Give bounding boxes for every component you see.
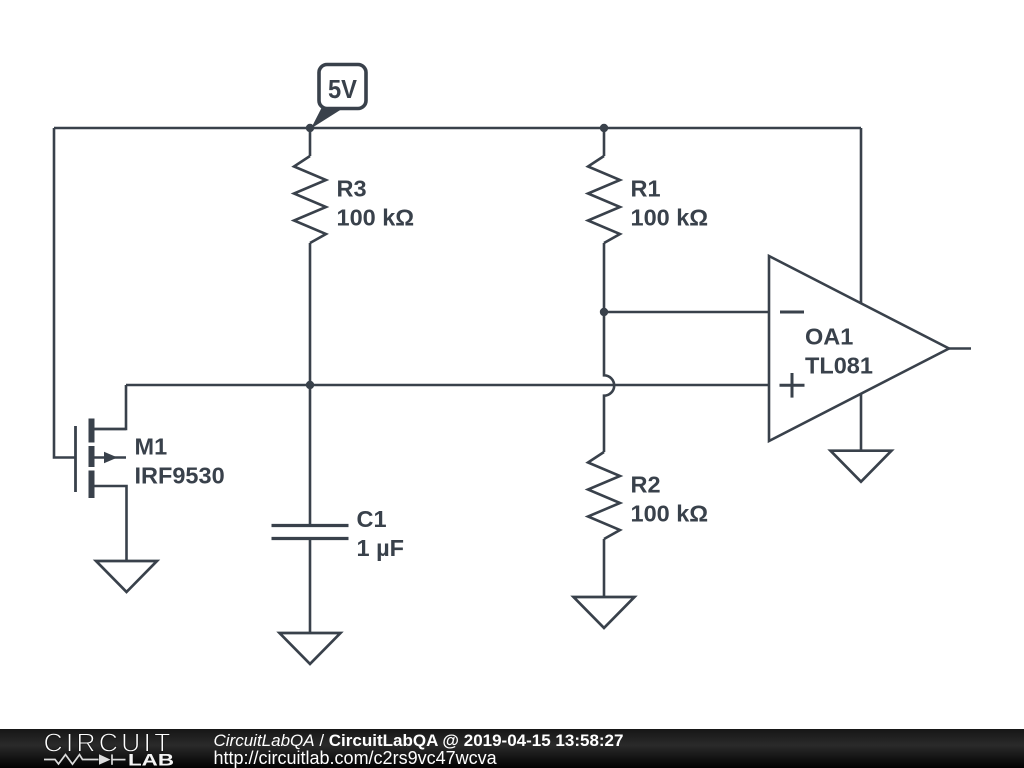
node: junction dot R3/C1/mid wire — [306, 381, 314, 389]
wire: op-amp output stub — [949, 347, 971, 350]
ground below R2 — [574, 597, 635, 628]
svg-text:100 kΩ: 100 kΩ — [337, 205, 415, 231]
wire: left rail down to M1 gate — [54, 128, 75, 458]
wire: op-amp V- pin to ground — [860, 394, 863, 451]
svg-text:http://circuitlab.com/c2rs9vc4: http://circuitlab.com/c2rs9vc47wcva — [214, 748, 498, 768]
wire: mid wire corner down to M1 drain — [95, 385, 127, 429]
op-amp OA1 plus input symbol — [780, 373, 805, 398]
svg-text:100 kΩ: 100 kΩ — [631, 501, 709, 527]
transistor M1 channel bars — [89, 419, 95, 499]
svg-text:5V: 5V — [328, 76, 357, 104]
op-amp OA1 triangle — [769, 256, 949, 441]
CircuitLab logo resistor-diode squiggle — [44, 754, 126, 764]
svg-text:R3: R3 — [337, 176, 367, 202]
svg-text:CircuitLabQA / CircuitLabQA @: CircuitLabQA / CircuitLabQA @ 2019-04-15… — [214, 731, 624, 750]
transistor M1 (PMOS) gate bar — [74, 426, 77, 492]
transistor M1 drain lead (top) — [95, 428, 127, 431]
wire: R2 upper lead with hop over mid wire — [604, 312, 614, 452]
wire: mid wire to noninverting input — [126, 384, 769, 387]
transistor M1 body lead with arrow — [95, 456, 127, 459]
wire: C1 top lead — [309, 385, 312, 524]
ground below M1 — [96, 561, 157, 592]
svg-text:M1: M1 — [135, 434, 168, 460]
resistor R3 — [294, 156, 326, 243]
wire: top 5V rail — [54, 127, 861, 130]
net label 5V flag tail — [311, 107, 345, 129]
wire: R2 bottom lead — [603, 539, 606, 597]
wire: R1 top lead — [603, 128, 606, 156]
node: junction dot R1/R2/inverting input — [600, 308, 608, 316]
wire: inverting input wire — [604, 311, 769, 314]
resistor R1 — [588, 156, 620, 243]
wire: C1 bottom lead — [309, 540, 312, 633]
ground below C1 — [280, 633, 341, 664]
wire: op-amp V+ supply pin from top rail — [860, 128, 863, 304]
svg-text:OA1: OA1 — [805, 323, 853, 349]
svg-text:R2: R2 — [631, 472, 661, 498]
svg-text:TL081: TL081 — [805, 352, 873, 378]
wire: R3 bottom lead down to mid node — [309, 243, 312, 385]
svg-text:R1: R1 — [631, 176, 661, 202]
op-amp OA1 minus input symbol — [780, 311, 804, 314]
wire: R1 bottom lead — [603, 243, 606, 312]
resistor R2 — [588, 452, 620, 539]
ground below op-amp — [831, 451, 892, 482]
svg-text:100 kΩ: 100 kΩ — [631, 205, 709, 231]
svg-text:LAB: LAB — [128, 752, 174, 768]
node: junction dot R1 top — [600, 124, 608, 132]
svg-text:IRF9530: IRF9530 — [135, 463, 225, 489]
transistor M1 source lead (bottom) — [95, 486, 127, 561]
footer bar — [0, 729, 1024, 768]
svg-text:1 µF: 1 µF — [357, 535, 405, 561]
svg-text:C1: C1 — [357, 506, 387, 532]
node: 5V tap junction dot — [306, 124, 314, 132]
net label 5V box — [319, 65, 366, 109]
wire: R3 top lead — [309, 128, 312, 156]
capacitor C1 — [272, 526, 349, 539]
